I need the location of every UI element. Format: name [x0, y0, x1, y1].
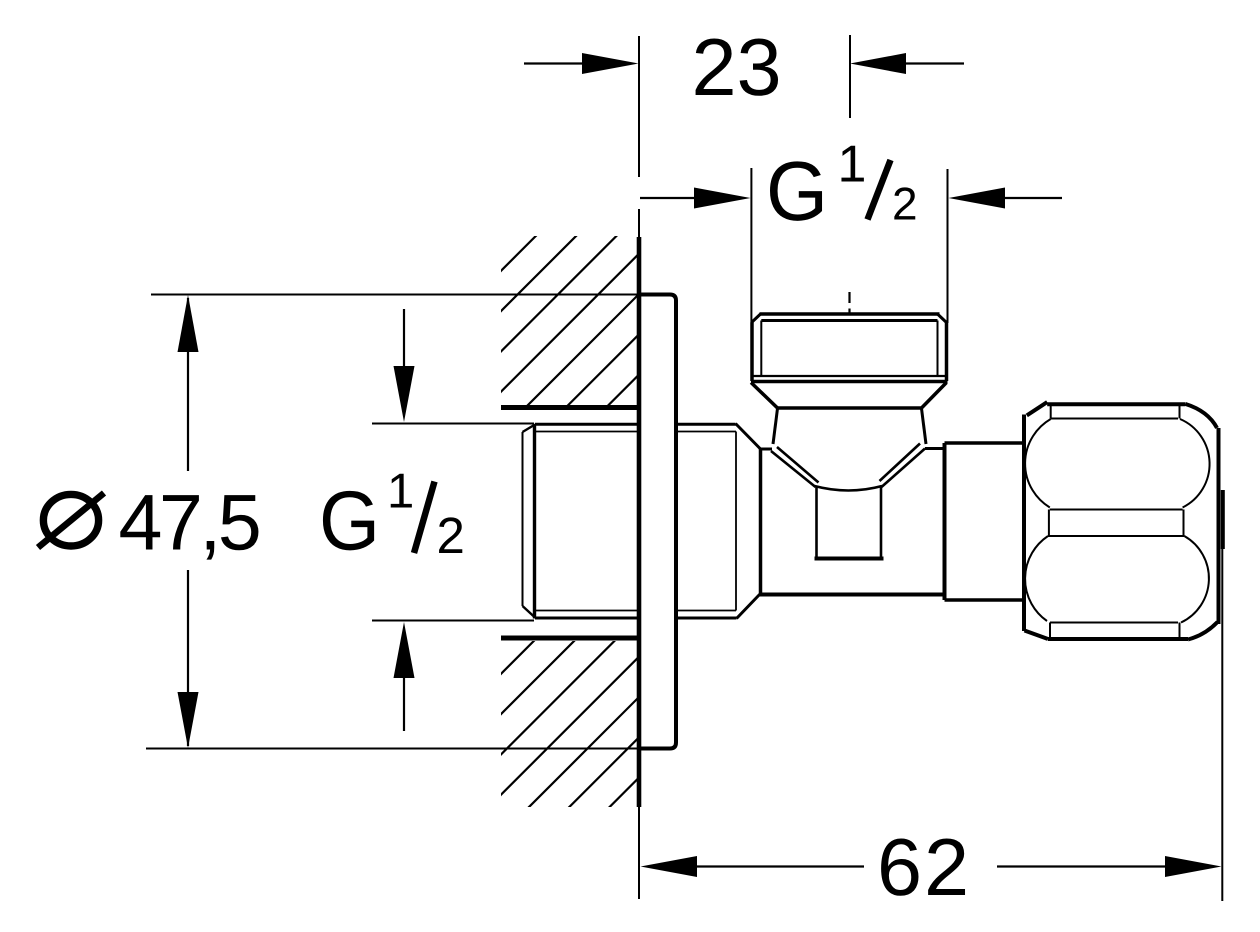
threaded pipe (G 1/2 male)	[523, 424, 761, 619]
valve body	[759, 443, 945, 600]
valve seat cup	[815, 487, 884, 559]
union nut silhouette	[1024, 402, 1219, 639]
union nut facet details	[1025, 404, 1209, 639]
pipe end face	[522, 432, 524, 606]
dia 47,5 label	[38, 493, 104, 548]
thread crest lines	[535, 423, 637, 426]
wall hole edges	[501, 408, 637, 639]
inner funnel cone	[771, 444, 925, 491]
wall face line	[638, 36, 640, 899]
dimension G 1/2 top	[751, 168, 947, 323]
escutcheon plate	[639, 295, 676, 749]
G 1/2 left label	[323, 491, 374, 550]
pipe-to-body chamfers	[736, 424, 761, 449]
dimension 23	[524, 62, 585, 64]
dia 47.5 extension lines	[146, 295, 639, 749]
tube end at nut right	[1221, 490, 1225, 549]
pipe OD extension lines	[372, 424, 534, 621]
top port (G 1/2 female)	[751, 314, 948, 382]
port centre axis dash-dot	[848, 292, 850, 313]
top port taper and neck	[751, 383, 947, 445]
pipe end chamfer	[533, 424, 536, 619]
dimension 62	[641, 856, 698, 877]
pipe OD dimension arrows	[403, 309, 405, 370]
outlet tube	[945, 443, 1023, 600]
thread root lines	[535, 431, 637, 433]
thread runout vertical	[735, 432, 737, 611]
dia 47.5 dimension line and arrows	[187, 298, 189, 746]
